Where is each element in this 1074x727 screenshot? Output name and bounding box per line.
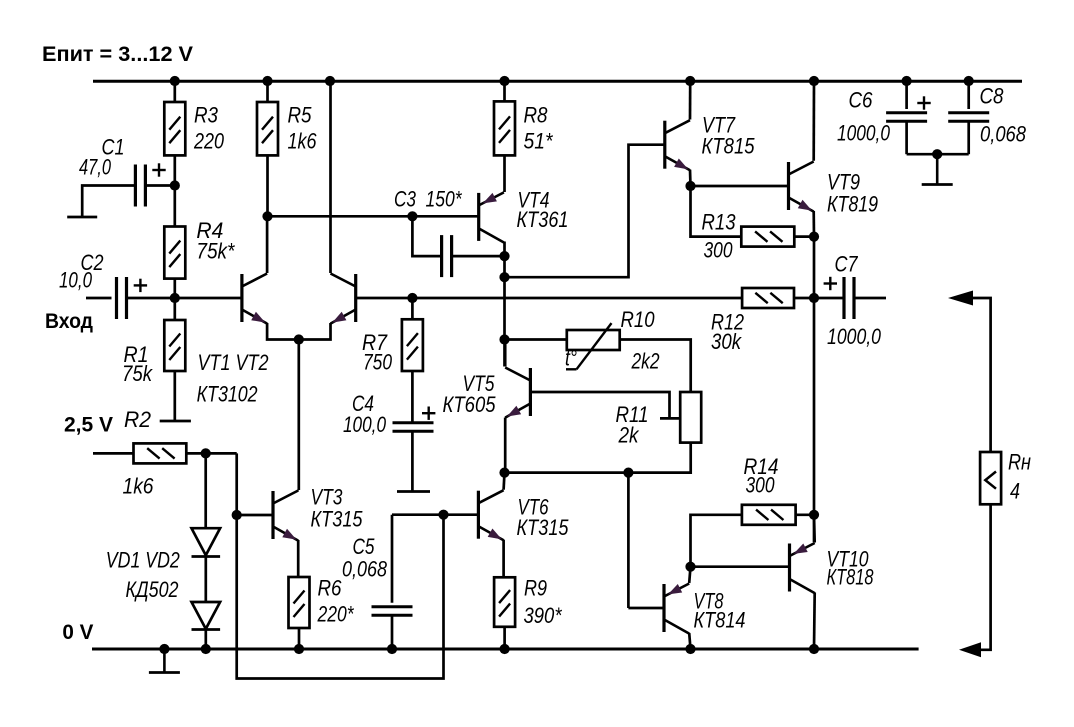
- label VT7 type KT815: [702, 134, 755, 159]
- svg-text:КД502: КД502: [126, 577, 179, 602]
- wire VT3 base: [237, 514, 273, 517]
- capacitor C2: [117, 277, 148, 319]
- wire VT7 emitter down: [689, 170, 692, 186]
- wire arrow to load corner: [971, 298, 991, 452]
- transistor VT1: [242, 274, 267, 324]
- capacitor C4: [393, 407, 436, 432]
- label C2: [81, 250, 104, 275]
- wire VT8 base tap down: [627, 473, 630, 608]
- wire VT10 emitter up: [813, 515, 816, 543]
- wire VT8 base: [628, 607, 664, 610]
- net label 0 V: [62, 620, 94, 644]
- svg-text:R8: R8: [524, 102, 548, 127]
- resistor R9: [494, 577, 515, 627]
- svg-text:КТ361: КТ361: [517, 207, 569, 232]
- svg-text:1000,0: 1000,0: [827, 324, 881, 349]
- label R2: [124, 407, 151, 432]
- junction C1/R3/R4 node: [170, 180, 180, 190]
- label VT9: [827, 170, 860, 195]
- label R8: [524, 102, 548, 127]
- junction VT3 base tap: [232, 510, 242, 520]
- wire 2.5V line: [93, 452, 134, 455]
- wire 1k6 to corner: [186, 452, 236, 455]
- label R3: [194, 102, 218, 127]
- svg-text:R13: R13: [702, 210, 736, 235]
- capacitor C8: [948, 113, 989, 121]
- transistor VT9: [789, 162, 814, 212]
- junction input node: [170, 293, 180, 303]
- transistor VT5: [505, 368, 530, 418]
- diode VD1: [192, 528, 221, 556]
- label R14 value 300: [746, 473, 775, 498]
- label C7: [835, 252, 859, 277]
- junction top rail / C8: [964, 76, 974, 86]
- label VT9 type KT819: [827, 192, 878, 217]
- junction 0V / VT10: [809, 644, 819, 654]
- wire R13 right: [794, 235, 814, 238]
- wire output node down: [813, 298, 816, 542]
- transistor VT6: [478, 490, 503, 540]
- label Rн: [1008, 450, 1031, 475]
- output arrow (to load): [948, 291, 973, 306]
- label R13: [702, 210, 736, 235]
- svg-text:R2: R2: [124, 407, 151, 432]
- svg-text:КТ3102: КТ3102: [197, 382, 258, 407]
- svg-text:VD1 VD2: VD1 VD2: [106, 548, 180, 573]
- junction C6/C8 ground: [932, 149, 942, 159]
- label R4: [196, 218, 223, 243]
- svg-text:КТ815: КТ815: [702, 134, 755, 159]
- wire R11 bottom to VT5 emitter line: [505, 443, 691, 473]
- svg-text:10,0: 10,0: [59, 268, 92, 293]
- svg-text:1000,0: 1000,0: [837, 121, 890, 146]
- transistor VT2: [331, 274, 356, 324]
- label C5 value 0,068: [342, 557, 387, 582]
- label 1k6 (bias): [123, 474, 154, 499]
- wire VT5 emitter down: [504, 418, 507, 473]
- svg-text:2,5 V: 2,5 V: [64, 413, 114, 437]
- label C1: [102, 135, 125, 160]
- junction top rail / VT7 collector: [685, 76, 695, 86]
- label C8 value 0,068: [980, 122, 1026, 147]
- svg-text:КТ315: КТ315: [517, 515, 569, 540]
- transistor VT4 (PNP): [479, 192, 504, 242]
- junction VT8 emitter node: [685, 562, 695, 572]
- junction VT4 collector / C3: [499, 251, 509, 261]
- svg-text:КТ819: КТ819: [827, 192, 878, 217]
- wire output node to C7: [814, 297, 845, 300]
- label C5: [353, 534, 375, 559]
- svg-text:0,068: 0,068: [342, 557, 387, 582]
- svg-text:300: 300: [746, 473, 775, 498]
- label R12: [711, 310, 744, 335]
- resistor R8: [494, 101, 515, 155]
- wire 0V bottom rail: [92, 648, 919, 651]
- svg-text:0,068: 0,068: [980, 122, 1026, 147]
- wire R10 right to R11: [620, 340, 691, 393]
- junction 0V / ground: [159, 644, 169, 654]
- capacitor C7: [824, 277, 854, 319]
- svg-text:R9: R9: [524, 576, 547, 601]
- wire VT7 emitter to R13: [691, 186, 742, 237]
- svg-text:C6: C6: [849, 88, 873, 113]
- ground bar below C4: [397, 490, 430, 493]
- wire C8 bottom: [967, 121, 970, 154]
- svg-text:Вход: Вход: [45, 309, 93, 333]
- wire C1 to R3/R4 node: [145, 184, 174, 187]
- wire C6-C8 common: [907, 153, 969, 156]
- junction top rail / R3: [170, 76, 180, 86]
- resistor R1: [164, 320, 185, 371]
- label VT5 type KT605: [443, 392, 496, 417]
- junction VT7 emitter node: [685, 181, 695, 191]
- bottom return arrow: [959, 642, 981, 657]
- svg-text:75k*: 75k*: [196, 239, 235, 264]
- label C8: [980, 84, 1004, 109]
- resistor R11 (plain box): [680, 392, 701, 443]
- ground below C1: [67, 216, 97, 219]
- label R11: [616, 402, 649, 427]
- label R9: [524, 576, 547, 601]
- ground below 0V rail: [149, 649, 180, 673]
- label R7 value 750: [363, 350, 392, 375]
- svg-text:51*: 51*: [524, 128, 554, 153]
- load resistor Rн: [980, 452, 1001, 504]
- svg-text:1k6: 1k6: [288, 128, 317, 153]
- wire VT2 emitter down: [299, 323, 331, 340]
- resistor R4: [164, 227, 185, 279]
- svg-text:C5: C5: [353, 534, 375, 559]
- junction 0V / R9: [500, 644, 510, 654]
- junction top rail / C6: [902, 76, 912, 86]
- junction R10 tap: [499, 334, 509, 344]
- resistor R5: [257, 102, 278, 155]
- svg-text:Епит = 3...12 V: Епит = 3...12 V: [42, 42, 194, 66]
- svg-text:C3: C3: [394, 187, 416, 212]
- wire diode stack top: [204, 453, 207, 528]
- wire bias down-around: [237, 453, 444, 678]
- junction C3 tap: [407, 211, 417, 221]
- net label Епит = 3...12 V: [42, 42, 194, 66]
- junction VT4 collector / VT7 base line: [499, 272, 509, 282]
- label VT5: [463, 371, 495, 396]
- svg-text:R5: R5: [288, 102, 312, 127]
- wire rail to C6: [905, 81, 908, 109]
- capacitor C3: [442, 235, 452, 277]
- wire VT7 emitter to VT9 base: [691, 185, 789, 188]
- label VT1 VT2: [198, 350, 269, 375]
- label C6 value 1000,0: [837, 121, 890, 146]
- wire R6 to 0V rail: [298, 628, 301, 649]
- wire input line left of C2: [86, 297, 112, 300]
- junction VT8 base tap: [623, 468, 633, 478]
- label R8 value 51*: [524, 128, 554, 153]
- junction 0V / C5: [387, 644, 397, 654]
- junction VT1/VT2 emitters: [294, 334, 304, 344]
- resistor R7: [402, 319, 423, 371]
- svg-text:750: 750: [363, 350, 392, 375]
- wire VD1 to VD2: [204, 557, 207, 603]
- svg-text:220: 220: [193, 128, 224, 153]
- junction 0V / VT8: [685, 644, 695, 654]
- wire top rail to R3: [173, 81, 176, 102]
- label R12 value 30k: [711, 329, 742, 354]
- wire VT9 emitter to output node: [813, 237, 816, 298]
- resistor R3: [164, 102, 185, 155]
- wire R3 to node: [173, 155, 176, 185]
- label R10 value 2k2: [631, 349, 660, 374]
- label C1 value 47,0: [79, 155, 111, 180]
- label C2 value 10,0: [59, 268, 92, 293]
- wire VT5 collector up: [504, 340, 507, 367]
- wire R9 to 0V rail: [503, 627, 506, 649]
- wire C6 bottom: [905, 121, 908, 154]
- svg-text:30k: 30k: [711, 329, 742, 354]
- junction top rail / VT2 collector: [325, 76, 335, 86]
- label VT6: [518, 495, 549, 520]
- wire VT6 collector up: [502, 473, 506, 490]
- label R4 value 75k*: [196, 239, 235, 264]
- wire VT3 collector up: [297, 489, 300, 492]
- label VT4: [518, 188, 550, 213]
- wire feedback to R7: [411, 298, 414, 319]
- label VT4 type KT361: [517, 207, 569, 232]
- wire R7 to C4: [411, 371, 414, 423]
- label VD1 VD2: [106, 548, 180, 573]
- wire VT9 emitter down: [812, 211, 815, 237]
- wire R12 to output node: [794, 297, 814, 300]
- net label Вход (input): [45, 309, 93, 333]
- wire C4 to ground bar: [411, 431, 414, 492]
- svg-text:1k6: 1k6: [123, 474, 154, 499]
- svg-text:0 V: 0 V: [62, 620, 94, 644]
- svg-text:t°: t°: [565, 346, 577, 371]
- svg-text:R6: R6: [318, 576, 342, 601]
- wire R5 to VT4 base line: [266, 155, 269, 216]
- svg-text:C8: C8: [980, 84, 1004, 109]
- svg-text:2k: 2k: [618, 423, 640, 448]
- svg-text:КТ605: КТ605: [443, 392, 496, 417]
- net label 2,5 V: [64, 413, 114, 437]
- svg-text:4: 4: [1010, 479, 1020, 504]
- svg-text:150*: 150*: [426, 187, 463, 212]
- wire top rail to R8: [503, 81, 506, 101]
- svg-text:2k2: 2k2: [631, 349, 660, 374]
- label R9 value 390*: [524, 603, 563, 628]
- capacitor C6: [886, 96, 931, 121]
- wire to VT4 base: [268, 215, 479, 218]
- label R13 value 300: [704, 238, 733, 263]
- svg-text:Rн: Rн: [1008, 450, 1031, 475]
- junction bias / VT6 base: [438, 510, 448, 520]
- label R10 t°: [565, 346, 577, 371]
- wire VT9 collector to rail: [812, 81, 815, 161]
- label VT3: [311, 485, 343, 510]
- label C4 value 100,0: [343, 412, 386, 437]
- wire C3 right leg: [452, 255, 505, 258]
- label VT10 type KT818: [827, 565, 874, 590]
- wire to VT7 base: [505, 145, 665, 278]
- label VT1 VT2 type KT3102: [197, 382, 258, 407]
- wire VT1 emitter down: [267, 323, 299, 340]
- wire C3 left leg: [412, 216, 441, 256]
- wire feedback line: [356, 297, 742, 300]
- wire VT7 collector to rail: [689, 81, 692, 120]
- wire input node to R1: [173, 298, 176, 320]
- wire VD2 to 0V rail: [204, 630, 207, 650]
- junction top rail / R5: [262, 76, 272, 86]
- label R6: [318, 576, 342, 601]
- label VT8: [694, 589, 724, 614]
- label R7: [362, 330, 388, 355]
- wire VT6 emitter to R9: [502, 540, 505, 578]
- junction top rail / VT9 collector: [809, 76, 819, 86]
- svg-text:75k: 75k: [122, 361, 153, 386]
- label VD type КД502: [126, 577, 179, 602]
- wire VT1 collector to R5 node: [266, 216, 269, 273]
- junction R14 / VT10 emitter: [809, 510, 819, 520]
- resistor 1k6 (bias): [134, 443, 187, 463]
- label C4: [352, 391, 374, 416]
- label C7 value 1000,0: [827, 324, 881, 349]
- wire R4 to input node: [173, 279, 176, 298]
- junction 0V / R6: [294, 644, 304, 654]
- transistor VT8 (PNP): [664, 584, 689, 634]
- junction 0V / VD2: [201, 644, 211, 654]
- wire VT8 collector to 0V: [689, 633, 690, 649]
- svg-text:КТ814: КТ814: [694, 608, 746, 633]
- ground below C6/C8: [922, 154, 953, 184]
- label R1 value 75k: [122, 361, 153, 386]
- label R5: [288, 102, 312, 127]
- label VT3 type KT315: [311, 507, 363, 532]
- wire VT8 emitter node to VT10 base: [691, 565, 790, 568]
- wire VT4 collector down: [503, 242, 506, 367]
- svg-text:47,0: 47,0: [79, 155, 111, 180]
- svg-text:100,0: 100,0: [343, 412, 386, 437]
- wire C7 to output stub: [854, 297, 887, 300]
- wire node to R4: [173, 186, 176, 227]
- svg-text:R3: R3: [194, 102, 218, 127]
- label VT7: [702, 113, 736, 138]
- label R5 value 1k6: [288, 128, 317, 153]
- wire +V top rail: [93, 80, 1022, 83]
- wire VT2 collector to top rail: [329, 81, 332, 273]
- label C3 value 150*: [426, 187, 463, 212]
- wire R1 to R2 terminal: [173, 371, 176, 421]
- junction top rail / R8: [499, 76, 509, 86]
- wire VT5 base to R11 tap: [530, 392, 669, 418]
- wire R14 right: [796, 513, 814, 516]
- label R11 value 2k: [618, 423, 640, 448]
- svg-text:R10: R10: [621, 307, 655, 332]
- thermistor R10: [566, 323, 620, 369]
- svg-text:300: 300: [704, 238, 733, 263]
- junction diodes tap: [201, 448, 211, 458]
- resistor R14: [742, 505, 796, 525]
- wire R14 left to VT8 emitter: [691, 515, 742, 567]
- wire common emitters to VT3 collector: [297, 340, 300, 491]
- junction R5 / VT1 collector: [262, 211, 272, 221]
- wire VT10 collector to 0V: [813, 593, 816, 650]
- capacitor C1: [135, 163, 165, 206]
- capacitor C5: [372, 607, 413, 615]
- terminal bar R2: [160, 420, 191, 423]
- transistor VT10 (PNP): [790, 543, 815, 593]
- label R14: [744, 454, 779, 479]
- wire R8 to VT4 emitter: [503, 155, 506, 192]
- label C3: [394, 187, 416, 212]
- junction R7 tap: [407, 293, 417, 303]
- resistor R6: [289, 577, 310, 628]
- wire C5 top leg: [391, 515, 394, 603]
- svg-text:VT1 VT2: VT1 VT2: [198, 350, 269, 375]
- label C6: [849, 88, 873, 113]
- resistor R12: [742, 288, 794, 308]
- wire C2 to input node: [127, 297, 242, 300]
- transistor VT7: [665, 120, 690, 170]
- wire C1 ground stub: [82, 186, 136, 218]
- label R1: [124, 342, 149, 367]
- tap bar into R11: [660, 417, 680, 420]
- label R10: [621, 307, 655, 332]
- wire VT8 emitter up: [689, 567, 690, 583]
- wire R10 left: [505, 338, 567, 341]
- resistor R13: [741, 227, 794, 247]
- label VT8 type KT814: [694, 608, 746, 633]
- junction output node: [809, 293, 819, 303]
- label R6 value 220*: [317, 602, 355, 627]
- diode VD2: [192, 602, 221, 630]
- wire rail to C8: [967, 81, 970, 109]
- svg-text:КТ818: КТ818: [827, 565, 874, 590]
- wire VT3 emitter to R6: [297, 540, 300, 577]
- wire load to bottom arrow: [981, 504, 991, 650]
- label VT6 type KT315: [517, 515, 569, 540]
- svg-text:КТ315: КТ315: [311, 507, 363, 532]
- label R3 value 220: [193, 128, 224, 153]
- wire C5 to 0V rail: [391, 615, 394, 649]
- junction VT5 emitter / VT6 collector: [499, 468, 509, 478]
- junction R13 / VT9 emitter: [809, 232, 819, 242]
- svg-text:390*: 390*: [524, 603, 563, 628]
- svg-text:C7: C7: [835, 252, 859, 277]
- wire VT6 base line: [392, 513, 478, 516]
- label Rн value 4: [1010, 479, 1020, 504]
- label VT10: [827, 547, 869, 572]
- wire top rail to R5: [266, 81, 269, 102]
- transistor VT3: [273, 491, 298, 541]
- svg-text:220*: 220*: [317, 602, 355, 627]
